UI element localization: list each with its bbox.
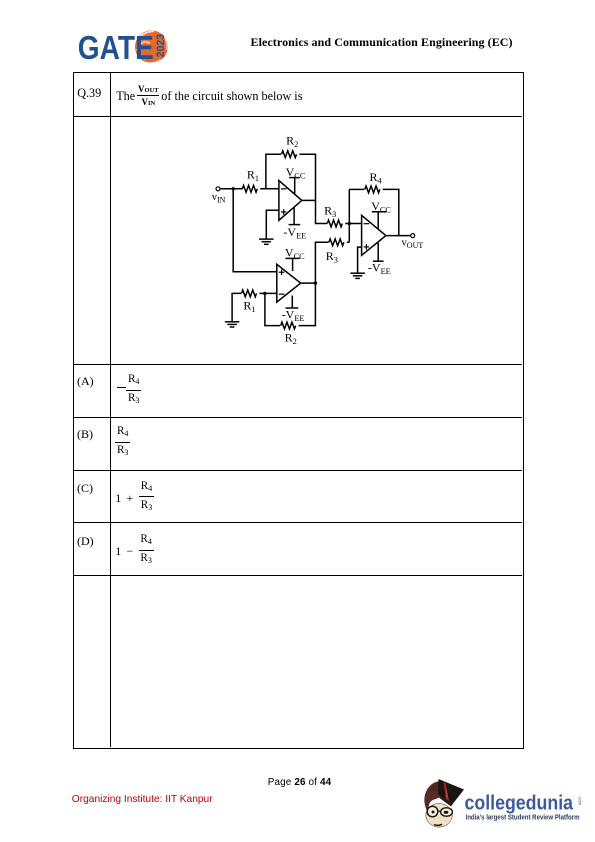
svg-text:vIN: vIN [212, 192, 226, 205]
wire R2b to output node [299, 283, 316, 326]
wire U2 output [301, 282, 316, 284]
svg-text:VCC: VCC [286, 165, 306, 181]
Q.39 row [77, 86, 101, 101]
wire summing node vertical [348, 189, 350, 242]
wire feedback2 down [265, 293, 280, 325]
wire R1 to opamp1 [260, 188, 279, 190]
svg-text:R3: R3 [324, 204, 336, 220]
junction U2 output [314, 281, 317, 284]
-VEE stub U1 [293, 208, 295, 225]
(D) [77, 534, 94, 549]
paper title [251, 35, 513, 50]
svg-text:2023: 2023 [155, 34, 167, 57]
svg-text:.com: .com [577, 795, 582, 805]
row dividers [73, 116, 522, 117]
cap [438, 779, 464, 803]
op-amp U1 (top) [279, 181, 302, 221]
resistor R2 (bottom feedback) [281, 322, 296, 329]
svg-text:VCC: VCC [285, 245, 305, 261]
-VEE stub U3 [377, 243, 379, 261]
column divider [110, 72, 111, 747]
resistor R1 (top) [242, 185, 257, 192]
ground R1 bottom [225, 321, 240, 323]
svg-text:R3: R3 [326, 249, 338, 265]
junction summing node [348, 222, 351, 225]
VCC stub U1 [294, 178, 296, 194]
mascot head [424, 779, 464, 827]
op-amp U2 (bottom) [277, 264, 301, 302]
junction VIN split [232, 187, 235, 190]
resistor R3 (lower) [329, 239, 344, 246]
wire node to R4 [349, 188, 364, 190]
wire feedback1 up [266, 154, 281, 189]
wire up to R3b [315, 242, 328, 283]
resistor R1 (bottom) [242, 290, 257, 297]
svg-text:R1: R1 [243, 298, 255, 314]
wire U3 output to VOUT [386, 235, 411, 237]
wire R3a to node [345, 223, 362, 225]
glasses [427, 806, 438, 817]
GATE 2023 logo [70, 24, 172, 68]
svg-text:-VEE: -VEE [283, 225, 306, 241]
wire R1b to U2 minus [259, 292, 277, 294]
wire U1 output [302, 199, 316, 201]
svg-text:R2: R2 [285, 331, 297, 347]
resistor R3 (upper) [327, 220, 342, 227]
wire R3b to node [347, 241, 350, 243]
junction R1b feedback [263, 292, 266, 295]
VCC stub U2 [292, 258, 294, 271]
(C) [77, 481, 93, 496]
svg-text:collegedunia: collegedunia [465, 793, 574, 815]
wire gnd up to R1b [232, 293, 241, 321]
resistor R2 (top feedback) [282, 151, 297, 158]
(A) [77, 374, 94, 389]
orange grunge circle [135, 30, 168, 63]
wire down to R3a [316, 200, 328, 223]
svg-text:GATE: GATE [78, 29, 154, 66]
VCC stub U3 [377, 212, 379, 229]
wire R2 to output node [299, 154, 315, 201]
-VEE stub U2 [291, 296, 293, 309]
svg-text:R2: R2 [286, 134, 298, 150]
wire R4 to output [383, 189, 399, 235]
resistor R4 [365, 186, 380, 193]
svg-text:-VEE: -VEE [282, 308, 305, 324]
wire U1 plus to ground [266, 210, 279, 239]
node VIN terminal [216, 187, 220, 191]
svg-text:-VEE: -VEE [368, 261, 391, 277]
svg-text:vOUT: vOUT [402, 238, 424, 251]
ground U1 plus [259, 238, 274, 240]
svg-text:R4: R4 [370, 170, 383, 186]
wire U3 plus to ground [358, 247, 362, 273]
svg-text:R1: R1 [247, 167, 259, 183]
svg-text:India's largest Student Review: India's largest Student Review Platform [466, 813, 580, 822]
op-amp U3 (right) [362, 215, 386, 255]
svg-text:VCC: VCC [371, 199, 391, 215]
(B) [77, 427, 93, 442]
wire VIN down to U2 plus [233, 189, 277, 272]
collegedunia logo [418, 770, 586, 836]
node VOUT terminal [411, 234, 415, 238]
wire VIN to R1 [220, 188, 243, 190]
ground U3 plus [350, 272, 365, 274]
